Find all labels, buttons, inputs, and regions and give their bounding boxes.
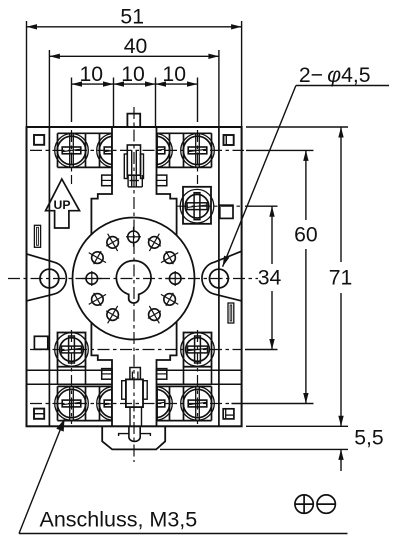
svg-text:10: 10 xyxy=(121,63,145,86)
screw terminal row4 col2 xyxy=(97,386,131,420)
screw terminal row3 col4 xyxy=(181,333,215,367)
pin hole 330 deg xyxy=(161,293,178,306)
pin hole 300 deg xyxy=(148,306,161,323)
svg-text:10: 10 xyxy=(162,63,186,86)
terminal band row4 xyxy=(58,386,212,420)
top mounting bump xyxy=(127,114,140,127)
clip square bottom-right xyxy=(223,409,234,419)
leader 2-dia4.5 xyxy=(223,86,389,267)
bottom tab center detail xyxy=(119,426,151,441)
screw column centerline 4 xyxy=(197,130,199,424)
body internal line lower of bottom band xyxy=(27,383,242,385)
pin hole 240 deg xyxy=(106,306,119,323)
latch slider block (bottom) xyxy=(126,379,143,407)
clip square bottom-left xyxy=(34,409,44,419)
UP arrow symbol xyxy=(46,179,80,228)
svg-text:Anschluss, M3,5: Anschluss, M3,5 xyxy=(40,508,198,532)
socket circle xyxy=(73,218,195,340)
clip square mid-right xyxy=(220,205,233,218)
divider line left xyxy=(48,127,50,426)
relay latch window (top) xyxy=(127,145,140,175)
terminal band row1 xyxy=(58,133,212,167)
dim 40 xyxy=(49,35,219,59)
terminal box row2 right xyxy=(183,187,211,224)
dim 5.5 xyxy=(338,427,383,472)
screw terminal row2 right xyxy=(180,189,214,223)
dim 34 xyxy=(258,206,282,349)
latch spring lines (top) xyxy=(128,150,142,187)
svg-text:71: 71 xyxy=(329,267,353,290)
column side tab right (top) xyxy=(157,175,167,186)
leader Anschluss xyxy=(19,419,348,534)
column side tab left (bottom) xyxy=(102,369,112,380)
clip square mid-left xyxy=(34,336,47,349)
label Anschluss M3,5 xyxy=(40,508,198,532)
pin hole 120 deg xyxy=(106,234,119,251)
divider line right xyxy=(218,127,220,426)
screw terminal row1 col2 xyxy=(97,133,131,167)
dim 10 middle xyxy=(114,63,156,87)
screw terminal row4 col1 xyxy=(55,386,89,420)
latch side bracket right (top) xyxy=(141,154,144,179)
svg-text:34: 34 xyxy=(258,267,282,290)
dim 51 extension lines xyxy=(27,21,242,127)
pin hole 180 deg xyxy=(82,271,102,286)
dim 71 xyxy=(329,127,353,426)
row4 centerline xyxy=(30,403,232,405)
latch side bracket right (bottom) xyxy=(143,381,147,400)
plus symbol xyxy=(295,495,313,513)
screw terminal row1 col3 xyxy=(139,133,173,167)
clip square top-right xyxy=(224,135,234,145)
screw terminal row1 col4 xyxy=(181,133,215,167)
svg-text:UP: UP xyxy=(54,198,71,212)
right mounting hole xyxy=(210,269,229,288)
body internal line upper of bottom band xyxy=(27,369,242,371)
pin hole 90 deg xyxy=(126,227,141,247)
left mounting hole xyxy=(40,269,59,288)
pin hole 30 deg xyxy=(161,251,178,264)
socket body outline xyxy=(27,127,242,426)
center module lower column xyxy=(91,322,176,426)
svg-text:40: 40 xyxy=(124,35,148,58)
center key hole xyxy=(116,261,151,303)
column side tab left (top) xyxy=(102,175,112,186)
left mounting tongue xyxy=(27,254,67,301)
terminal box row3 col4 xyxy=(184,333,212,385)
bottom mounting tab xyxy=(102,426,165,449)
terminal box row3 col1 xyxy=(58,333,86,385)
screw terminal row3 col1 xyxy=(55,333,89,367)
right mounting tongue xyxy=(202,251,242,301)
minus symbol xyxy=(317,495,335,513)
column side tab right (bottom) xyxy=(157,369,167,380)
svg-text:60: 60 xyxy=(294,224,318,247)
dim 51 xyxy=(27,5,242,29)
latch side bracket left (top) xyxy=(124,154,127,179)
dim 10 extension lines xyxy=(72,78,198,127)
dim 60 xyxy=(294,150,318,403)
dim 5.5 extension line xyxy=(160,448,348,450)
dim 34 extension lines xyxy=(245,206,278,349)
dim 10 right xyxy=(156,63,198,87)
screw column centerline 1 xyxy=(71,130,73,424)
screw terminal row4 col4 xyxy=(181,386,215,420)
side slot right xyxy=(228,303,234,323)
latch side bracket left (bottom) xyxy=(122,381,126,400)
svg-text:2− φ4,5: 2− φ4,5 xyxy=(299,64,371,87)
dim 71 extension lines xyxy=(246,127,348,426)
svg-text:5,5: 5,5 xyxy=(354,427,383,450)
clip square top-left xyxy=(34,135,44,145)
vertical centerline xyxy=(133,107,135,462)
side slot left xyxy=(34,225,40,247)
pin hole 150 deg xyxy=(89,251,106,264)
pin hole 0 deg xyxy=(165,271,185,286)
svg-text:51: 51 xyxy=(120,5,144,28)
horizontal centerline xyxy=(8,278,258,280)
dim 60 extension lines xyxy=(232,150,314,403)
screw terminal row4 col3 xyxy=(139,386,173,420)
latch stem lines (bottom) xyxy=(130,407,142,426)
screw terminal row1 col1 xyxy=(55,133,89,167)
pin hole 60 deg xyxy=(148,234,161,251)
dim 10 left xyxy=(72,63,114,87)
row2 centerline xyxy=(176,205,242,207)
latch tab (bottom) xyxy=(130,368,141,380)
row1 centerline xyxy=(30,149,244,151)
svg-text:10: 10 xyxy=(80,63,104,86)
row3 centerline xyxy=(30,349,242,351)
dim 40 extension lines xyxy=(49,50,219,127)
pin hole 210 deg xyxy=(89,293,106,306)
center module upper column xyxy=(91,127,176,235)
label 2-dia4.5 xyxy=(299,64,371,87)
